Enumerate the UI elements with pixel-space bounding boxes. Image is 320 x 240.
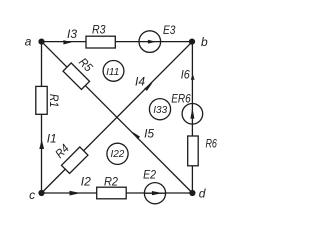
- svg-text:I2: I2: [81, 175, 91, 189]
- svg-text:R1: R1: [47, 94, 61, 108]
- svg-text:E3: E3: [163, 23, 176, 37]
- svg-text:R2: R2: [104, 174, 118, 188]
- svg-text:I3: I3: [67, 27, 77, 41]
- resistor R3: [86, 22, 115, 48]
- current arrow I6: [181, 67, 195, 81]
- svg-text:R6: R6: [205, 137, 217, 151]
- resistor R1: [36, 86, 61, 114]
- svg-text:c: c: [29, 188, 35, 202]
- svg-text:b: b: [201, 35, 208, 49]
- node a: [25, 35, 45, 49]
- mesh current I33: [149, 99, 170, 120]
- current arrow I2: [70, 175, 92, 196]
- source E3: [139, 23, 176, 52]
- svg-text:I1: I1: [47, 132, 57, 146]
- svg-text:R3: R3: [92, 22, 106, 36]
- resistor R5: [63, 55, 96, 89]
- svg-text:I4: I4: [135, 74, 145, 88]
- svg-text:I33: I33: [153, 105, 167, 116]
- resistor R2: [97, 174, 127, 198]
- node c: [29, 188, 45, 202]
- current arrow I5: [133, 126, 155, 140]
- mesh current I11: [103, 61, 124, 82]
- wire a-d (diagonal): [42, 42, 193, 193]
- svg-text:I11: I11: [106, 67, 119, 78]
- svg-text:a: a: [25, 35, 32, 49]
- current arrow I4: [135, 74, 153, 91]
- resistor R6: [188, 136, 217, 166]
- wire a-b (top): [42, 41, 193, 43]
- wire a-c (left): [41, 42, 43, 193]
- svg-text:I22: I22: [110, 149, 124, 160]
- svg-text:E2: E2: [143, 167, 156, 181]
- node d: [189, 187, 205, 201]
- wire c-d (bottom): [42, 192, 193, 194]
- svg-text:I6: I6: [181, 67, 190, 81]
- svg-text:ER6: ER6: [171, 92, 191, 106]
- current arrow I1: [39, 132, 56, 149]
- resistor R4: [52, 141, 88, 173]
- svg-text:d: d: [199, 187, 206, 201]
- node b: [189, 35, 208, 49]
- svg-text:I5: I5: [144, 126, 154, 140]
- source E2: [143, 167, 166, 203]
- wire b-d (right): [191, 42, 193, 193]
- current arrow I3: [63, 27, 77, 45]
- mesh current I22: [107, 143, 128, 164]
- wire b-c (diagonal): [42, 42, 193, 193]
- source ER6: [171, 92, 202, 125]
